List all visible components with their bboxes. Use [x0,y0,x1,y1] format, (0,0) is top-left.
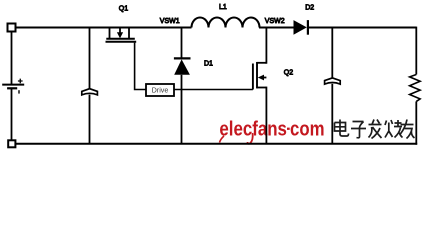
terminal square bottom-left [8,140,15,147]
ground rail [16,143,417,145]
wire D1 cathode lead from VSW1 [181,27,183,59]
transistor Q1 [106,27,137,42]
wire top rail Q1 region to inductor (node VSW1) [110,27,192,29]
wire top rail D2 to right corner [308,27,416,29]
battery plus sign [18,79,23,84]
watermark hanzi dian [335,120,349,137]
wire Q2 source to ground [265,87,267,144]
wire input cap bottom lead [89,95,91,144]
battery short plate - [7,87,17,89]
svg-text:Drive: Drive [152,86,169,95]
svg-text:L1: L1 [219,4,227,11]
inductor L1 [192,18,260,28]
transistor Q2 [253,62,267,90]
watermark elecfans.com [219,119,324,141]
watermark hanzi you [400,120,415,139]
drive block U1 [146,84,174,96]
svg-text:VSW2: VSW2 [265,18,285,25]
wire output cap bottom lead [331,84,333,144]
watermark hanzi zi [351,122,366,138]
wire input cap top lead [89,27,91,89]
Q2 drain stub [257,62,267,64]
Q2 body stub with arrow [261,77,267,79]
Q1 body stub with arrow [119,27,121,33]
Q2 channel bar [256,62,258,88]
battery V1 [2,79,24,94]
capacitor input [82,89,98,95]
terminal square top-left [8,24,16,32]
resistor load zigzag [410,75,421,102]
battery minus tick [18,90,20,93]
capacitor output [325,78,341,84]
watermark hanzi shao [385,120,403,138]
watermark swash under e [220,136,225,143]
wire top rail inductor to D2 (node VSW2) [259,27,294,29]
battery long plate + [2,84,24,86]
Q1 channel bar [106,38,135,40]
wire D1 anode lead to ground [181,75,183,144]
Q2 source stub [257,87,267,89]
svg-text:D1: D1 [204,61,213,68]
Q1 gate bar [106,41,137,43]
wire right column down to resistor [415,27,417,75]
svg-text:com: com [290,119,325,141]
svg-text:Q1: Q1 [119,6,128,13]
wire drive output to Q2 gate [174,89,253,91]
Q2 gate bar [252,64,254,90]
svg-text:VSW1: VSW1 [160,18,180,25]
diode D1 [174,58,191,74]
Q1 source stub [109,27,111,39]
Q1 drain stub [128,27,130,39]
wire battery top lead [11,32,13,85]
wire battery bottom lead [11,88,13,140]
wire Q2 drain to VSW2 rail [265,27,267,64]
wire top rail from input terminal to Q1 [16,27,110,29]
wire resistor bottom to ground rail [415,101,417,144]
wire output cap top lead [331,27,333,79]
watermark hanzi fa [369,120,382,139]
watermark swash f descender [248,133,253,144]
svg-text:D2: D2 [305,5,314,12]
diode D2 [294,20,308,35]
wire Q1 gate lead to Drive [135,43,146,90]
svg-text:Q2: Q2 [284,69,293,76]
